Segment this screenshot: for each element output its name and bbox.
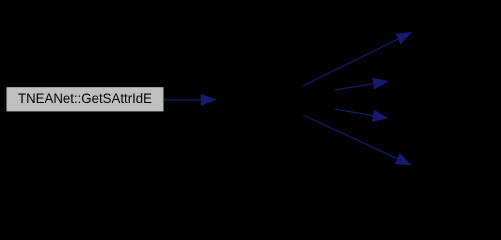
edge from middle node to bottom-right node (303, 115, 411, 165)
edge from middle node to lower-middle-right node (335, 109, 387, 121)
wire (335, 109, 374, 116)
arrowhead (396, 154, 411, 165)
edge from TNEANet::GetSAttrIdE to middle node (164, 95, 215, 106)
edge from middle node to top-right node (303, 33, 411, 87)
edge from middle node to upper-middle-right node (335, 78, 388, 90)
arrowhead (373, 111, 388, 122)
svg-text:TNEANet::GetSAttrIdE: TNEANet::GetSAttrIdE (18, 90, 152, 106)
arrowhead (396, 33, 411, 44)
wire (335, 83, 375, 90)
wire (303, 115, 399, 159)
node TNEANet::GetSAttrIdE (current node box) (6, 87, 164, 112)
wire (164, 99, 202, 101)
arrowhead (201, 95, 215, 106)
wire (303, 38, 399, 86)
arrowhead (373, 78, 388, 88)
